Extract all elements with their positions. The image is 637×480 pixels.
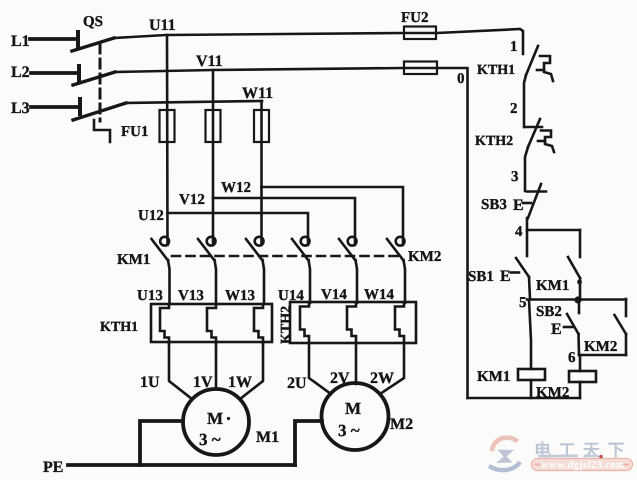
svg-text:M: M [345, 399, 361, 418]
svg-text:U12: U12 [138, 208, 164, 224]
svg-text:1U: 1U [140, 374, 160, 391]
svg-text:U11: U11 [149, 17, 176, 34]
svg-text:PE: PE [43, 459, 63, 476]
svg-text:V11: V11 [196, 53, 223, 70]
svg-text:FU1: FU1 [121, 124, 149, 140]
svg-text:KM1: KM1 [536, 278, 569, 294]
svg-text:L1: L1 [11, 33, 30, 50]
svg-text:E: E [551, 321, 562, 338]
svg-text:2V: 2V [330, 370, 350, 387]
svg-text:M1: M1 [256, 429, 279, 446]
svg-text:FU2: FU2 [401, 10, 429, 26]
svg-text:W14: W14 [364, 287, 395, 303]
svg-text:3: 3 [511, 169, 519, 185]
svg-text:W11: W11 [242, 85, 273, 102]
svg-text:W12: W12 [221, 180, 251, 196]
svg-text:U13: U13 [137, 288, 163, 304]
svg-text:1: 1 [510, 39, 518, 55]
svg-text:2U: 2U [287, 375, 307, 392]
svg-text:V13: V13 [178, 288, 204, 304]
svg-text:www.dgjsl23.com: www.dgjsl23.com [541, 460, 625, 471]
svg-text:6: 6 [568, 350, 576, 366]
svg-text:KTH2: KTH2 [279, 306, 294, 344]
svg-text:QS: QS [83, 14, 103, 30]
svg-text:KTH2: KTH2 [475, 134, 513, 149]
svg-text:3 ~: 3 ~ [338, 421, 360, 440]
svg-text:SB3: SB3 [481, 197, 507, 213]
svg-text:L3: L3 [11, 100, 30, 117]
svg-text:L2: L2 [11, 64, 30, 81]
svg-text:W13: W13 [225, 288, 255, 304]
svg-text:SB1: SB1 [468, 269, 494, 285]
svg-text:1W: 1W [228, 374, 252, 391]
svg-text:KM2: KM2 [408, 249, 441, 265]
svg-text:M2: M2 [390, 416, 413, 433]
svg-text:KM1: KM1 [117, 252, 150, 268]
svg-text:KTH1: KTH1 [477, 63, 515, 78]
svg-text:5: 5 [519, 295, 527, 311]
svg-text:KM1: KM1 [477, 369, 510, 385]
svg-text:E: E [513, 197, 524, 214]
svg-text:3 ~: 3 ~ [199, 430, 221, 449]
svg-text:SB2: SB2 [536, 304, 562, 320]
svg-text:2W: 2W [370, 370, 394, 387]
svg-text:KM2: KM2 [584, 339, 617, 355]
svg-text:KTH1: KTH1 [100, 320, 138, 335]
svg-text:E: E [500, 268, 511, 285]
svg-text:0: 0 [457, 71, 465, 87]
svg-text:M: M [207, 409, 223, 428]
svg-text:1V: 1V [193, 374, 213, 391]
svg-text:2: 2 [510, 101, 518, 117]
svg-text:KM2: KM2 [536, 385, 569, 401]
svg-text:V14: V14 [321, 287, 347, 303]
svg-text:U14: U14 [278, 288, 304, 304]
svg-text:4: 4 [515, 224, 523, 240]
svg-text:V12: V12 [179, 192, 205, 208]
